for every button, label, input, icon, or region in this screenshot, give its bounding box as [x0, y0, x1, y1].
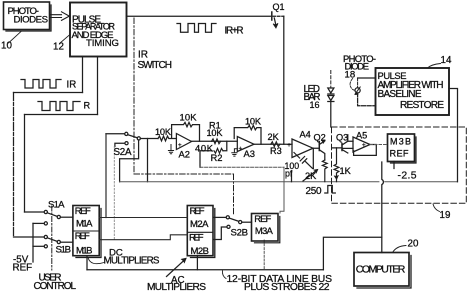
wire R vertical to S1A: [24, 115, 26, 213]
pulse amplifier with baseline restore box 14: [376, 68, 450, 115]
svg-text:-2.5: -2.5: [398, 170, 417, 181]
svg-text:BASELINE: BASELINE: [378, 89, 422, 100]
svg-text:pf: pf: [285, 168, 293, 178]
wire down to M3A box top: [280, 167, 284, 213]
op-amp A3: [237, 137, 254, 152]
svg-text:REF: REF: [75, 206, 91, 217]
svg-text:+: +: [287, 142, 291, 149]
svg-text:PLUS STROBES 22: PLUS STROBES 22: [244, 282, 330, 291]
resistor R1 10K: [212, 139, 221, 144]
dashed control line to S2B: [233, 174, 235, 216]
waveform IR: [21, 80, 61, 89]
svg-text:14: 14: [441, 55, 452, 66]
op-amp A4: [292, 139, 313, 158]
wire A4 output down: [312, 148, 314, 168]
svg-text:REF: REF: [254, 214, 271, 225]
svg-text:M1A: M1A: [76, 218, 93, 229]
svg-text:REF: REF: [190, 206, 205, 217]
wire M1 REF2 to M2 REF2: [99, 235, 187, 240]
svg-text:Q1: Q1: [273, 2, 285, 12]
leader DC multipliers: [88, 258, 104, 264]
leader label 19: [433, 204, 440, 212]
wire IR horizontal: [14, 92, 83, 94]
leader label 14: [428, 64, 441, 69]
svg-text:REF: REF: [390, 149, 409, 159]
svg-text:DIODES: DIODES: [14, 15, 49, 26]
multiplier M1 box: [73, 206, 99, 256]
svg-text:19: 19: [440, 210, 451, 221]
switch S1B: [14, 235, 73, 248]
bottom data bus wire: [87, 269, 323, 271]
dotted wire M3A to bus: [263, 240, 265, 270]
pulse source 250: [325, 186, 336, 194]
wire M1 REF1 to M2 REF1: [99, 217, 187, 219]
svg-text:1K: 1K: [340, 166, 352, 176]
svg-text:+: +: [362, 142, 366, 149]
wire bus corner to computer line: [323, 237, 381, 270]
svg-text:20: 20: [408, 239, 419, 250]
svg-text:10K: 10K: [180, 112, 198, 123]
svg-text:SWITCH: SWITCH: [138, 60, 173, 71]
transistor Q2: [318, 142, 320, 151]
svg-text:10: 10: [1, 41, 12, 52]
svg-text:12: 12: [53, 42, 64, 53]
wire M1 box to bus: [86, 256, 88, 270]
photodiodes box 10: [4, 2, 52, 31]
svg-text:M2A: M2A: [190, 219, 209, 230]
waveform R: [38, 102, 80, 111]
pulse separator and edge timing box 12: [70, 3, 127, 57]
wire S2A arm dc tap loop: [120, 140, 139, 182]
dashed box 19: [332, 127, 467, 203]
wire A2 output to A3: [192, 140, 238, 142]
LED bar diodes 16: [330, 71, 332, 88]
svg-text:10K: 10K: [245, 117, 262, 127]
svg-text:M3B: M3B: [390, 137, 411, 147]
resistor 2K vertical: [322, 160, 327, 182]
wire Q3 emitter to A5: [348, 135, 353, 141]
svg-text:COMPUTER: COMPUTER: [356, 263, 406, 275]
wire PS output stub IR: [82, 57, 84, 93]
wire PS box to Q1: [127, 15, 271, 17]
wire 250 node to bus: [291, 172, 293, 182]
signal bus horizontal: [120, 181, 458, 183]
dashed control line IR switch bottom: [134, 173, 234, 175]
svg-text:16: 16: [310, 100, 320, 110]
wire S2A top throw down: [105, 134, 107, 218]
switch S1A: [25, 210, 73, 225]
feedback wire A5: [354, 145, 377, 156]
waveform IR+R: [177, 24, 216, 33]
svg-text:REF: REF: [189, 233, 204, 244]
leader label 10: [9, 32, 22, 44]
svg-text:A2: A2: [179, 149, 190, 160]
svg-text:10K: 10K: [207, 128, 224, 138]
svg-text:S2B: S2B: [231, 228, 249, 239]
wire A3 output: [254, 143, 292, 145]
svg-text:REF: REF: [75, 231, 90, 242]
op-amp A2: [176, 134, 191, 150]
svg-text:+: +: [178, 142, 182, 149]
resistor 1K vertical: [334, 148, 339, 182]
arrow AC multipliers: [167, 260, 186, 277]
wire S2A arm to A2 resistor: [140, 138, 158, 140]
wire pulse amplifier output: [449, 89, 458, 182]
wire Q1 down to A4 input node: [283, 16, 285, 144]
svg-text:10K: 10K: [155, 127, 172, 137]
svg-text:18: 18: [345, 70, 356, 81]
svg-text:+: +: [239, 146, 243, 153]
wire -5V REF riser: [32, 223, 34, 262]
ground at A3: [232, 149, 238, 156]
resistor 10K input A2: [158, 136, 176, 141]
svg-text:Q2: Q2: [314, 133, 326, 143]
wire A5 output to M3B: [370, 144, 387, 146]
ground at A2: [168, 145, 173, 154]
transistor Q3: [341, 144, 343, 151]
leader 12-bit bus label: [222, 271, 226, 279]
resistor R2 40K tap: [200, 141, 227, 167]
svg-text:REF: REF: [13, 262, 33, 273]
dotted wire S2A lower throw down: [113, 147, 115, 240]
svg-text:MULTIPLIERS: MULTIPLIERS: [147, 282, 206, 291]
dashed user control line: [51, 206, 53, 270]
wire photodiode to pulse amplifier: [358, 77, 376, 79]
gray wire multiplier to R2: [200, 166, 284, 168]
photodiode 18: [355, 88, 360, 93]
svg-text:TIMING: TIMING: [86, 38, 119, 49]
svg-text:2K: 2K: [305, 171, 317, 181]
svg-text:IR+R: IR+R: [225, 26, 244, 37]
svg-text:A4: A4: [300, 130, 311, 140]
svg-text:R: R: [84, 101, 91, 111]
leader label 12: [60, 35, 71, 44]
svg-text:S1A: S1A: [48, 200, 65, 211]
wire M3B to -2.5: [393, 162, 395, 169]
svg-text:S1B: S1B: [56, 245, 72, 256]
wire R horizontal: [25, 114, 98, 116]
trimmer arrow 2K: [303, 170, 317, 181]
wire A2 input node down to bus: [147, 139, 149, 182]
svg-text:2K: 2K: [268, 132, 280, 142]
svg-text:MULTIPLIERS: MULTIPLIERS: [104, 256, 160, 267]
svg-text:M1B: M1B: [76, 246, 93, 257]
svg-text:CONTROL: CONTROL: [34, 281, 77, 291]
svg-text:IR: IR: [67, 80, 77, 91]
multiplier M2 box: [187, 206, 213, 256]
switch S2A: [106, 132, 140, 146]
resistor R3 2K: [271, 142, 280, 147]
capacitor 100pf: [294, 153, 313, 169]
svg-text:S2A: S2A: [114, 147, 132, 158]
svg-text:A3: A3: [244, 148, 255, 159]
svg-text:Q3: Q3: [336, 133, 348, 143]
multiplier M3B REF box: [388, 134, 415, 162]
svg-text:250: 250: [306, 186, 322, 197]
svg-text:RESTORE: RESTORE: [400, 100, 444, 111]
dashed control line IR switch vertical: [133, 18, 135, 174]
transistor Q1: [271, 12, 273, 20]
svg-text:R3: R3: [270, 146, 282, 156]
wire PS output stub R: [97, 57, 99, 115]
arrow photodiodes to pulse separator: [51, 12, 70, 21]
wire M2 box to bus: [196, 256, 198, 270]
leader label 20: [393, 246, 407, 253]
feedback resistor 10K A2: [172, 122, 200, 141]
svg-text:M2B: M2B: [191, 246, 210, 257]
wire IR vertical to S1B: [13, 93, 15, 238]
op-amp A5: [353, 137, 370, 152]
computer box 20: [354, 253, 409, 287]
feedback resistor 10K A3: [234, 125, 261, 144]
svg-text:R2: R2: [211, 152, 223, 163]
switch S2B: [213, 216, 251, 240]
hop vertical wire over bus: [382, 162, 384, 253]
multiplier M3A REF box: [252, 214, 279, 242]
svg-text:A5: A5: [356, 131, 367, 141]
svg-text:M3A: M3A: [255, 226, 274, 237]
